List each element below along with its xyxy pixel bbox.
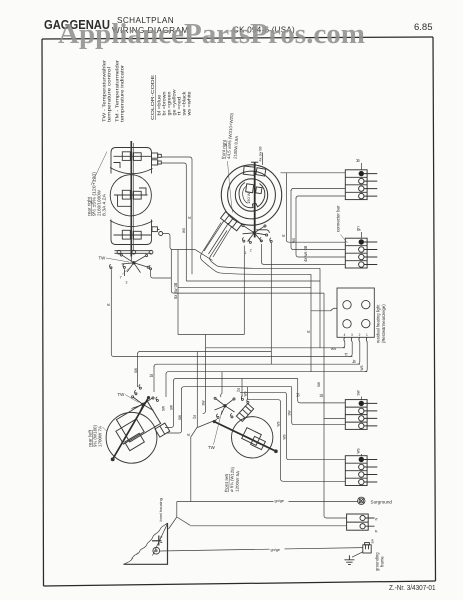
lamp 1 (343, 301, 351, 309)
svg-text:sw: sw (200, 400, 205, 405)
leader front right label (228, 161, 233, 213)
svg-text:connector bar: connector bar (336, 205, 341, 232)
wire FR hook e to block2 row4 (262, 244, 346, 264)
resistor box d (251, 436, 266, 449)
svg-text:sw: sw (161, 406, 166, 411)
wire box lamp feeds (342, 342, 345, 348)
contact hook j (156, 397, 157, 400)
connector hatch plug (bottom left) (221, 212, 242, 231)
svg-text:Surground: Surground (371, 499, 393, 504)
header: SCHALTPLAN title (112, 16, 189, 35)
svg-text:Z.-Nr. 3/4307-01: Z.-Nr. 3/4307-01 (389, 583, 436, 592)
svg-text:ws: ws (291, 238, 296, 243)
bar terminal circles (117, 250, 121, 254)
wire H348 (206, 347, 346, 349)
lamp 4 (362, 319, 370, 327)
svg-text:4: 4 (344, 333, 346, 337)
resistor R1b (133, 153, 141, 161)
terminal bar (115, 251, 152, 254)
connector block 2 (345, 238, 377, 268)
terminal digits (344, 333, 368, 337)
svg-text:1200W 5A: 1200W 5A (235, 471, 241, 492)
wire V173 to RL pin (165, 381, 174, 428)
wire jog to bowl (169, 502, 191, 530)
svg-text:2: 2 (250, 249, 252, 253)
svg-text:ws: ws (276, 421, 281, 426)
svg-text:3: 3 (126, 281, 128, 285)
wire V166 (165, 374, 167, 398)
resistor R2b (133, 191, 141, 199)
outer circle (221, 165, 281, 225)
connector block 4 (345, 456, 377, 486)
lamp 3 (343, 320, 351, 328)
svg-text:sw: sw (371, 539, 375, 544)
wire FR switch hook down (243, 246, 245, 335)
svg-text:gn: gn (356, 226, 361, 231)
TW switch (rear right) (110, 254, 152, 276)
wire H351 bus (138, 352, 272, 355)
heater shaft (rear right) (130, 141, 132, 257)
wire V137 (137, 353, 139, 387)
wire H371 bus (166, 372, 367, 375)
wire RR hook c to bundle (151, 270, 172, 278)
TW switch (front left) (214, 396, 249, 419)
wire V286 (286, 173, 345, 242)
wire H399 (248, 400, 345, 482)
svg-text:5x sw 08: 5x sw 08 (173, 282, 178, 299)
svg-text:ws: ws (359, 365, 364, 370)
svg-text:br: br (352, 359, 357, 363)
contact hook e (249, 239, 250, 242)
svg-text:1700W 7A: 1700W 7A (98, 426, 103, 447)
svg-text:bl: bl (356, 159, 361, 162)
contact hook n (connector feed 2) (247, 399, 248, 402)
wire box left input (311, 310, 331, 312)
resistor R3b (133, 231, 141, 239)
wire RR pin2 to bus (186, 280, 320, 282)
inner horseshoe conductor (239, 183, 265, 208)
svg-text:1: 1 (366, 333, 368, 337)
svg-text:rt: rt (344, 352, 349, 355)
label rear right rating (rotated) (87, 171, 107, 216)
wire V311 (310, 274, 312, 371)
wire bundle chevron outline (200, 223, 227, 274)
resistor box b (125, 433, 145, 450)
svg-text:ws: ws (331, 346, 336, 351)
svg-text:sw: sw (177, 415, 182, 420)
wire V205 (203, 335, 206, 414)
label front left rating (rotated) (224, 466, 241, 492)
svg-text:TW: TW (208, 445, 216, 450)
ground symbol (344, 555, 354, 564)
svg-text:sw: sw (316, 382, 321, 387)
circle body (rear left) (106, 412, 157, 463)
svg-text:TW: TW (99, 256, 107, 261)
svg-text:ws: ws (356, 448, 361, 453)
contact hook d (242, 238, 243, 241)
connector block 3 (345, 400, 377, 430)
diagonal through terminal (153, 524, 168, 556)
svg-text:4x sw 08: 4x sw 08 (258, 147, 262, 162)
wire V197 down (191, 352, 198, 502)
wire V296 (296, 198, 345, 258)
svg-text:7: 7 (120, 275, 123, 280)
label gn/ge on ground wires (with white gap) (270, 497, 289, 552)
border frame (42, 37, 436, 586)
wire V291 to block3 row4 (292, 387, 346, 425)
top cap lower arc (110, 168, 153, 174)
wire H378 bus (174, 379, 298, 382)
contact hook k (217, 414, 218, 417)
svg-text:gn/ge: gn/ge (275, 499, 285, 503)
svg-text:8.3A 4.2A: 8.3A 4.2A (102, 194, 107, 216)
svg-text:COLOR-CODE: COLOR-CODE (150, 75, 155, 120)
svg-text:P: P (374, 530, 379, 533)
contact hook h (135, 390, 136, 393)
svg-text:150 W: 150 W (246, 192, 251, 204)
wire H356 bus (114, 356, 353, 358)
svg-text:ws: ws (243, 391, 248, 396)
contact hook b (123, 264, 124, 267)
contact hook c (149, 265, 150, 268)
svg-text:rt: rt (187, 216, 192, 219)
label front right rating (rotated) (221, 112, 240, 159)
svg-text:temperature control: temperature control (107, 67, 112, 122)
top cap housing (111, 148, 152, 174)
main circle body (rear right) (110, 175, 151, 216)
wire H334 (178, 334, 244, 336)
leader rear left label (103, 427, 107, 431)
svg-text:2100W 8,8A: 2100W 8,8A (233, 136, 240, 159)
middle circle (228, 171, 276, 219)
bowl terminal (153, 547, 160, 554)
bottom cap internal conductor (114, 234, 152, 236)
wire band upper run (222, 267, 320, 268)
wire V242 to FL connector (241, 379, 243, 397)
leader wire for 4x sw 08 (262, 153, 264, 166)
cap internal conductor (114, 156, 152, 168)
svg-text:gn/ge: gn/ge (271, 548, 281, 552)
connector plug right (155, 423, 170, 437)
svg-text:3: 3 (351, 333, 353, 337)
svg-text:br: br (236, 387, 241, 391)
resistor ring segment b (256, 168, 266, 176)
svg-text:sw: sw (168, 405, 173, 410)
resistor ring segment a (243, 166, 254, 175)
lamp 2 (362, 300, 370, 308)
heater shaft (rear left) (113, 397, 149, 460)
svg-text:rt: rt (186, 433, 191, 436)
svg-text:residual heating light: residual heating light (376, 304, 381, 343)
inner circle (235, 179, 267, 211)
tilted ground symbol (158, 536, 160, 546)
resistor R1a (122, 152, 130, 161)
connector hatch plug (top) (236, 404, 253, 422)
svg-text:N: N (374, 518, 379, 521)
wire V181 to RL pin2 (166, 389, 182, 434)
svg-text:rt: rt (306, 330, 311, 333)
leader line rear right label (91, 152, 107, 186)
legend COLOR-CODE (rotated) (150, 75, 192, 120)
wire V247 to FL connector (247, 387, 249, 399)
wire RR pin2 right (to H280.7) (161, 163, 186, 281)
label rear left rating (rotated) (88, 424, 103, 447)
wire RR pin1 right (161, 157, 192, 274)
terminal node (159, 232, 163, 236)
resistor R3a (122, 230, 130, 239)
wire RR switch hook a down (111, 270, 114, 357)
svg-text:sw: sw (356, 389, 361, 395)
TW switch (rear left) (132, 385, 159, 414)
svg-text:bl: bl (149, 374, 154, 377)
svg-text:ws: ws (181, 228, 186, 233)
wire V222 to FL switch (221, 372, 223, 394)
connector block 1 (345, 170, 377, 200)
circle body (front left) (232, 417, 273, 458)
wire V178 (177, 250, 179, 335)
tilted housing rect (116, 401, 160, 442)
shaft side tap (256, 230, 269, 233)
wire FR hook g long down (270, 243, 272, 364)
leader connector bar to block2 (341, 235, 348, 244)
wire block1 row3 feed (291, 189, 345, 192)
inner resistor d (256, 187, 262, 194)
contact hook g (270, 238, 271, 241)
resistor R2a (122, 190, 130, 199)
link to ground (352, 552, 363, 557)
shaft top T terminal (251, 161, 258, 163)
wire H288 (178, 287, 311, 289)
wire H364 bus (154, 364, 360, 367)
bottom cap housing (111, 220, 152, 245)
svg-text:1: 1 (245, 251, 247, 255)
wire block1 row4 feed (296, 196, 345, 199)
svg-text:rt: rt (106, 303, 111, 306)
wire band lower run (222, 273, 311, 274)
svg-text:rt: rt (281, 234, 286, 237)
svg-text:AppliancePartsPros.com: AppliancePartsPros.com (58, 18, 365, 50)
legend TW/TM (rotated) (102, 59, 125, 122)
wire V324 long (324, 293, 347, 518)
svg-text:br: br (192, 414, 197, 418)
heater shaft (front left) (214, 422, 277, 452)
resistor box c (242, 428, 262, 446)
inner resistor c (246, 184, 254, 193)
circle internal conductor (114, 188, 148, 206)
wire V171 (171, 250, 324, 294)
left input hook (331, 308, 337, 311)
contact hook m (connector feed 1) (241, 396, 242, 399)
wire block3 row3 stub (324, 417, 345, 419)
svg-text:temperature indicator: temperature indicator (120, 64, 125, 122)
heater shaft (front right) (254, 162, 256, 237)
wire to Surground (177, 501, 358, 503)
wire FR bundle vertical down (319, 268, 321, 348)
wire V297 to block3 row1 (298, 379, 346, 403)
wire bowl to grounding clamp (160, 548, 363, 551)
svg-text:bowl housing: bowl housing (158, 498, 163, 521)
wire block1 row1 feed (281, 172, 346, 174)
header: GAGGENAU logo (44, 17, 110, 32)
resistor box a (116, 419, 144, 444)
svg-text:ws =white: ws =white (187, 91, 192, 116)
svg-text:frame: frame (379, 556, 384, 567)
svg-text:sw: sw (287, 410, 292, 415)
svg-text:ws: ws (281, 434, 286, 439)
bundle diagonal wires (204, 221, 232, 258)
wire RR terminal bottom (163, 234, 213, 261)
svg-text:(Restwärmeanzeige): (Restwärmeanzeige) (381, 304, 386, 343)
svg-text:bl: bl (296, 393, 301, 396)
wire V154 (153, 366, 155, 392)
wire to supply block row2 (190, 525, 347, 527)
wire V291a (291, 190, 345, 250)
svg-text:2: 2 (359, 333, 361, 337)
svg-text:sw: sw (133, 368, 138, 373)
svg-text:6.85: 6.85 (414, 22, 433, 33)
bottom right connector plug (152, 227, 157, 232)
contact hook a (110, 264, 111, 267)
hook V222 (221, 394, 222, 398)
bottom terminal hooks (344, 337, 367, 341)
contact hook l (231, 413, 232, 416)
contact hook i (139, 385, 140, 388)
wire FL switch hook k left down (198, 420, 218, 428)
wire H386 bus (182, 387, 292, 390)
svg-text:bl: bl (319, 394, 324, 397)
top right connector plug (152, 153, 158, 158)
wire H392 (240, 392, 345, 459)
svg-text:TW: TW (118, 392, 126, 397)
svg-text:4x ws 08: 4x ws 08 (303, 245, 308, 262)
contact hook f (260, 237, 261, 240)
bottom cap upper arc (110, 221, 153, 227)
TW switch (front right) (242, 225, 272, 244)
